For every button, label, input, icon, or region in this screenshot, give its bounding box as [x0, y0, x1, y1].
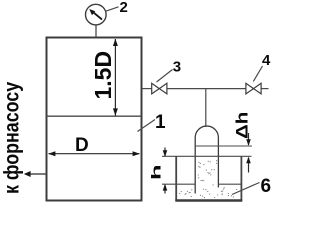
liquid stipple dots — [179, 161, 237, 198]
liquid level in cup, left with extension — [162, 183, 195, 185]
svg-text:4: 4 — [262, 52, 271, 69]
svg-text:1.5D: 1.5D — [90, 51, 116, 100]
vertical pipe down to bell — [205, 89, 207, 127]
vessel 1 (gasometer tank) — [47, 38, 142, 201]
cup 6 walls and bottom — [175, 156, 177, 201]
valve 4 (bowtie) — [246, 83, 254, 94]
svg-text:2: 2 — [120, 0, 128, 16]
leader to label 1 — [138, 120, 156, 132]
dimension h line with arrows — [164, 148, 166, 157]
liquid level line inside bell (extension to dh) — [195, 145, 252, 147]
divider line inside vessel — [46, 115, 141, 117]
dimension 1.5D vertical line with arrows — [114, 39, 116, 116]
svg-text:к форнасосу: к форнасосу — [0, 82, 24, 194]
svg-text:3: 3 — [173, 59, 181, 76]
svg-text:6: 6 — [261, 176, 272, 197]
leader to label 3 — [157, 70, 173, 83]
outlet arrow to pump (wire) — [28, 173, 46, 175]
svg-text:Δh: Δh — [232, 112, 251, 139]
bell dome (tube with rounded top) — [195, 126, 218, 193]
svg-text:D: D — [75, 135, 89, 156]
pipe from vessel to valve 3 — [142, 88, 152, 90]
liquid level in cup, right — [218, 183, 241, 185]
dimension dh line with arrows — [248, 133, 250, 145]
pipe between valves — [167, 88, 246, 90]
valve 3 (bowtie) — [152, 83, 160, 94]
gauge stem — [95, 25, 97, 38]
gauge needle — [93, 12, 103, 20]
dimension D horizontal line with arrows — [49, 153, 140, 155]
pipe stub after valve 4 — [261, 88, 268, 90]
gauge U2 (manometer) circle — [86, 4, 107, 25]
leader to label 2 — [106, 7, 119, 11]
leader to label 6 — [232, 183, 260, 195]
leader to label 4 — [253, 66, 262, 82]
svg-text:h: h — [150, 164, 164, 180]
svg-text:1: 1 — [155, 112, 166, 133]
cup rim line with extensions — [162, 155, 252, 157]
